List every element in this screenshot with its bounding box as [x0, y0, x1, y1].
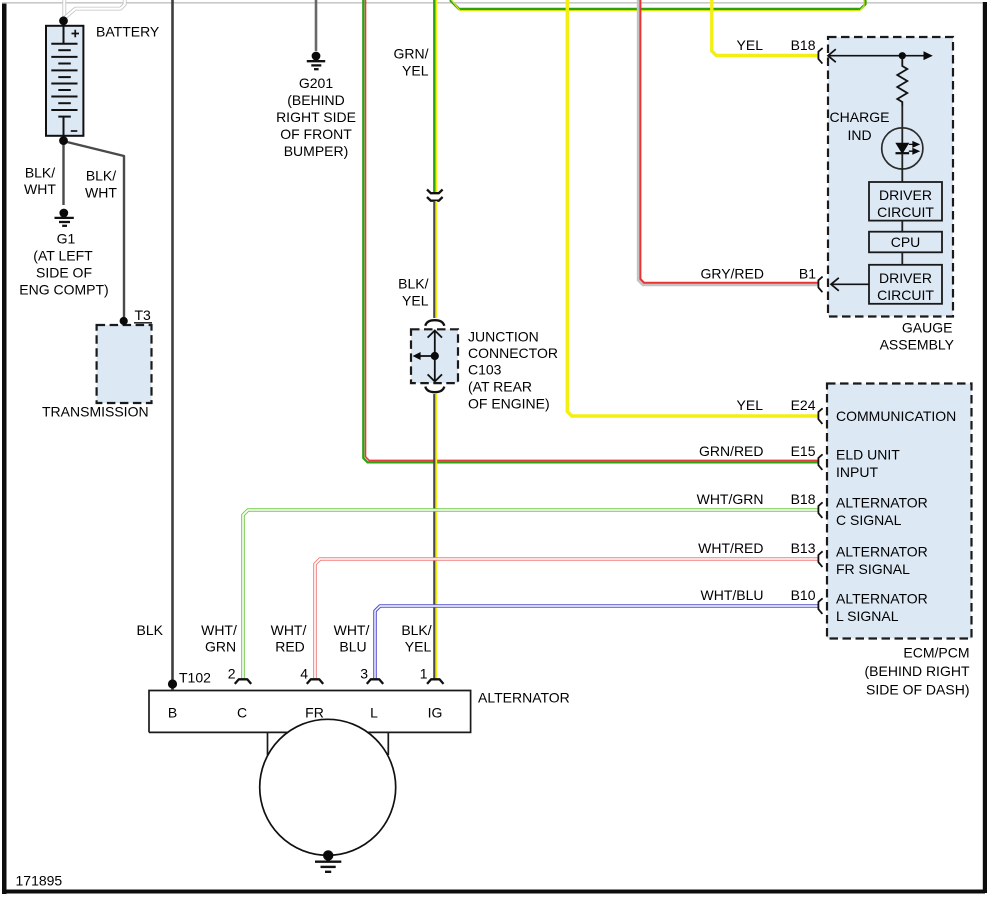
connector pin B1 gauge	[818, 277, 822, 293]
svg-text:WHT/: WHT/	[271, 622, 307, 638]
svg-text:T3: T3	[135, 307, 152, 323]
svg-text:WHT/: WHT/	[334, 622, 370, 638]
svg-text:G1: G1	[57, 231, 76, 247]
svg-text:GRN/: GRN/	[394, 46, 429, 62]
svg-text:WHT/RED: WHT/RED	[698, 540, 763, 556]
wire WHT from battery positive straight up	[62, 0, 66, 19]
connector arc alternator pin 3	[367, 679, 383, 684]
battery BATTERY	[46, 16, 83, 145]
svg-text:OF ENGINE): OF ENGINE)	[468, 396, 550, 412]
driver circuit box lower	[869, 265, 942, 304]
svg-text:RED: RED	[275, 639, 305, 655]
alternator terminal box	[149, 691, 471, 756]
svg-text:DRIVER: DRIVER	[879, 270, 932, 286]
svg-text:2: 2	[228, 665, 236, 681]
svg-text:ECM/PCM: ECM/PCM	[903, 645, 969, 661]
connector pin B13 ECM	[818, 551, 822, 567]
transmission box T3	[97, 317, 152, 403]
svg-text:COMMUNICATION: COMMUNICATION	[836, 408, 956, 424]
svg-text:B10: B10	[791, 587, 816, 603]
connector arc alternator pin 2	[235, 679, 251, 684]
svg-text:T102: T102	[179, 670, 211, 686]
svg-text:SIDE OF DASH): SIDE OF DASH)	[866, 682, 969, 698]
svg-text:JUNCTION: JUNCTION	[468, 329, 539, 345]
svg-text:BATTERY: BATTERY	[96, 24, 160, 40]
svg-text:SIDE OF: SIDE OF	[36, 265, 92, 281]
svg-text:RIGHT SIDE: RIGHT SIDE	[276, 109, 356, 125]
wire WHT/RED from ECM pin B13 to alternator pin 4	[315, 559, 818, 679]
svg-text:L: L	[370, 705, 378, 721]
wire to ground G201	[315, 0, 318, 51]
svg-text:GAUGE: GAUGE	[902, 320, 953, 336]
svg-text:YEL: YEL	[402, 293, 429, 309]
driver circuit box upper	[869, 182, 942, 221]
svg-text:FR SIGNAL: FR SIGNAL	[836, 561, 910, 577]
connector pin B18 gauge	[818, 48, 822, 64]
resistor in gauge	[897, 58, 907, 106]
svg-text:WHT/GRN: WHT/GRN	[697, 491, 764, 507]
wire resistor to LED	[901, 106, 903, 128]
svg-text:BLK/: BLK/	[25, 165, 55, 181]
svg-text:CPU: CPU	[891, 234, 921, 250]
svg-text:ASSEMBLY: ASSEMBLY	[880, 337, 955, 353]
ECM/PCM box	[827, 384, 972, 639]
node arrow into gauge at B1	[831, 278, 869, 291]
svg-text:C103: C103	[468, 362, 502, 378]
wire BLK vertical from top edge to alternator terminal B	[171, 0, 174, 690]
svg-text:YEL: YEL	[405, 639, 432, 655]
svg-text:IG: IG	[428, 705, 443, 721]
svg-text:ALTERNATOR: ALTERNATOR	[836, 495, 928, 511]
wire BLK/WHT battery negative diagonal to transmission T3	[65, 142, 124, 318]
wire BLK/WHT battery negative to ground G1	[62, 141, 64, 205]
svg-text:YEL: YEL	[737, 37, 764, 53]
svg-text:WHT: WHT	[85, 185, 117, 201]
svg-text:E24: E24	[791, 397, 816, 413]
wire break symbol on GRN/YEL	[427, 190, 443, 201]
wire WHT/GRN from ECM pin B18 to alternator pin 2	[243, 510, 818, 679]
CPU box	[869, 232, 942, 253]
svg-text:(BEHIND: (BEHIND	[287, 92, 345, 108]
svg-text:C SIGNAL: C SIGNAL	[836, 512, 902, 528]
wire BLK/YEL from break down to junction connector C103	[434, 201, 436, 318]
svg-text:YEL: YEL	[402, 63, 429, 79]
svg-text:171895: 171895	[16, 873, 63, 889]
svg-text:BUMPER): BUMPER)	[284, 143, 349, 159]
wire YEL from top edge to gauge pin B18	[712, 0, 818, 56]
svg-text:DRIVER: DRIVER	[879, 187, 932, 203]
svg-text:B: B	[168, 705, 177, 721]
svg-text:(AT REAR: (AT REAR	[468, 379, 532, 395]
ground G201	[307, 52, 325, 70]
ground at alternator	[315, 850, 341, 872]
junction connector C103	[411, 320, 458, 392]
svg-text:GRN: GRN	[205, 639, 236, 655]
wire BLK/YEL from junction connector C103 down to alternator pin 1	[434, 394, 436, 680]
connector pin B18 ECM	[818, 502, 822, 518]
svg-text:C: C	[237, 705, 247, 721]
svg-text:(BEHIND RIGHT: (BEHIND RIGHT	[865, 663, 970, 679]
svg-text:ELD UNIT: ELD UNIT	[836, 447, 900, 463]
svg-text:FR: FR	[305, 705, 324, 721]
svg-text:BLK/: BLK/	[86, 168, 116, 184]
svg-text:G201: G201	[299, 75, 333, 91]
svg-text:ALTERNATOR: ALTERNATOR	[836, 591, 928, 607]
svg-text:WHT: WHT	[24, 181, 56, 197]
LED charge indicator	[882, 128, 923, 182]
svg-text:ENG COMPT): ENG COMPT)	[19, 282, 108, 298]
svg-text:E15: E15	[791, 443, 816, 459]
svg-text:BLK: BLK	[137, 622, 164, 638]
connector pin E24	[818, 408, 822, 424]
wire GRY/RED from top edge to gauge pin B1	[639, 0, 819, 285]
svg-text:4: 4	[300, 665, 308, 681]
wire CPU to driver	[901, 252, 903, 264]
svg-text:ALTERNATOR: ALTERNATOR	[836, 544, 928, 560]
svg-text:BLU: BLU	[339, 639, 366, 655]
svg-text:YEL: YEL	[737, 397, 764, 413]
svg-text:CONNECTOR: CONNECTOR	[468, 345, 558, 361]
svg-text:WHT/: WHT/	[201, 622, 237, 638]
svg-text:BLK/: BLK/	[398, 276, 428, 292]
node T102 junction dot	[168, 679, 177, 688]
svg-text:B1: B1	[799, 266, 816, 282]
svg-text:ALTERNATOR: ALTERNATOR	[478, 690, 570, 706]
connector pin B10 ECM	[818, 598, 822, 614]
wire WHT/BLU from ECM pin B10 to alternator pin 3	[375, 606, 818, 679]
svg-text:GRN/RED: GRN/RED	[699, 443, 764, 459]
svg-text:GRY/RED: GRY/RED	[700, 266, 764, 282]
svg-text:1: 1	[420, 665, 428, 681]
svg-text:CHARGE: CHARGE	[830, 109, 890, 125]
svg-text:TRANSMISSION: TRANSMISSION	[42, 404, 149, 420]
connector pin E15	[818, 454, 822, 470]
svg-text:CIRCUIT: CIRCUIT	[877, 204, 934, 220]
svg-text:3: 3	[360, 665, 368, 681]
connector arc alternator pin 4	[307, 679, 323, 684]
node arrow into gauge at B18	[828, 49, 933, 62]
svg-text:CIRCUIT: CIRCUIT	[877, 287, 934, 303]
svg-text:B13: B13	[791, 540, 816, 556]
svg-text:IND: IND	[847, 127, 871, 143]
wire GRN/YEL vertical from top edge down to break	[434, 0, 436, 193]
wire driver to CPU	[901, 221, 903, 232]
svg-text:OF FRONT: OF FRONT	[280, 126, 352, 142]
svg-text:B18: B18	[791, 491, 816, 507]
connector arc alternator pin 1	[427, 679, 443, 684]
wire GRN/YEL horizontal along top	[450, 0, 865, 11]
ground G1	[55, 209, 74, 226]
svg-text:B18: B18	[791, 37, 816, 53]
svg-text:BLK/: BLK/	[401, 622, 431, 638]
svg-text:WHT/BLU: WHT/BLU	[701, 587, 764, 603]
wire WHT bent from battery positive to top edge	[65, 0, 125, 18]
alternator circle	[260, 719, 396, 855]
gauge assembly box	[828, 37, 953, 317]
svg-text:L SIGNAL: L SIGNAL	[836, 608, 899, 624]
wire YEL from top edge to ECM pin E24	[567, 0, 818, 416]
wire GRN/RED vertical from top edge then right to ECM pin E15	[363, 0, 818, 462]
svg-text:(AT LEFT: (AT LEFT	[33, 248, 93, 264]
svg-text:INPUT: INPUT	[836, 464, 878, 480]
